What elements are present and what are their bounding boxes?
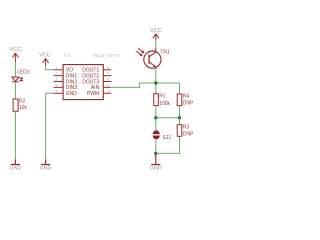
junction node D — [154, 152, 157, 155]
transistor TR1 — [136, 48, 161, 69]
wire LED1 cathode to R2 — [14, 82, 16, 99]
U1 left pin stubs — [54, 70, 64, 94]
svg-text:5: 5 — [56, 89, 58, 93]
supply symbol VCC (col2) — [43, 58, 49, 65]
wire node B to SJ1 — [155, 118, 157, 131]
svg-text:R1: R1 — [159, 93, 166, 99]
svg-text:10: 10 — [107, 89, 111, 93]
svg-text:U1: U1 — [64, 53, 71, 59]
supply symbol VCC (col1) — [12, 53, 18, 62]
resistor R3 — [177, 125, 182, 137]
wire U1 AIN to node A — [111, 83, 180, 94]
svg-text:SJ1: SJ1 — [163, 135, 172, 141]
svg-text:100k: 100k — [159, 101, 170, 107]
svg-text:R2: R2 — [19, 99, 26, 105]
svg-text:MCW_GPIO: MCW_GPIO — [93, 53, 120, 59]
svg-text:1: 1 — [56, 66, 58, 70]
svg-text:2: 2 — [56, 72, 58, 76]
svg-text:VCC: VCC — [150, 28, 162, 34]
resistor R2 — [13, 99, 18, 111]
wire VCC to U1 pin 1 — [46, 66, 54, 70]
U1 right pin names — [82, 68, 99, 98]
wire TR1 emitter to R1 — [155, 68, 157, 94]
wire node B to node C — [156, 117, 180, 119]
svg-text:LED1: LED1 — [17, 70, 30, 76]
ground symbol GND (TR1 col) — [151, 153, 160, 164]
U1 left pin names — [66, 68, 78, 98]
supply symbol VCC (TR1) — [153, 34, 159, 41]
U1 right pin stubs — [103, 70, 111, 94]
svg-text:4: 4 — [56, 83, 58, 87]
svg-text:R3: R3 — [183, 124, 190, 130]
wire VCC to LED1 anode — [14, 62, 16, 77]
svg-text:7: 7 — [107, 72, 109, 76]
svg-text:GND: GND — [150, 166, 162, 172]
IC U1 body — [63, 65, 103, 100]
wire U1 GND pin to GND — [46, 93, 54, 159]
wire R2 to GND — [14, 111, 16, 159]
wire VCC to TR1 collector — [155, 41, 157, 48]
LED LED1 — [12, 77, 23, 82]
ground symbol GND (col1) — [11, 159, 20, 164]
svg-text:8: 8 — [107, 78, 109, 82]
wire node D to R3 bottom — [156, 136, 180, 153]
wire R4 to node C — [179, 106, 181, 118]
svg-text:6: 6 — [107, 66, 109, 70]
solder jumper SJ1 — [153, 130, 160, 139]
U1 left pin numbers — [56, 66, 58, 94]
ground symbol GND (col2) — [41, 159, 50, 164]
wire node C to R3 — [179, 118, 181, 125]
svg-text:GND: GND — [66, 91, 78, 97]
svg-text:9: 9 — [107, 83, 109, 87]
svg-text:GND: GND — [40, 166, 52, 172]
junction node B — [154, 116, 157, 119]
wire R1 to node B — [155, 106, 157, 118]
resistor R4 — [177, 94, 182, 106]
svg-text:3: 3 — [56, 78, 58, 82]
svg-text:PWM: PWM — [87, 91, 99, 97]
svg-text:DNP: DNP — [183, 101, 194, 107]
svg-text:VCC: VCC — [10, 47, 22, 53]
U1 right pin numbers — [107, 66, 111, 94]
junction node A — [154, 81, 157, 84]
svg-text:GND: GND — [9, 166, 21, 172]
svg-text:10k: 10k — [19, 105, 28, 111]
resistor R1 — [154, 94, 159, 106]
svg-text:R4: R4 — [183, 94, 190, 100]
junction node C — [178, 116, 181, 119]
svg-text:DNP: DNP — [183, 131, 194, 137]
wire SJ1 to node D — [155, 140, 157, 154]
svg-text:TR1: TR1 — [160, 50, 170, 56]
svg-text:VCC: VCC — [39, 53, 51, 59]
